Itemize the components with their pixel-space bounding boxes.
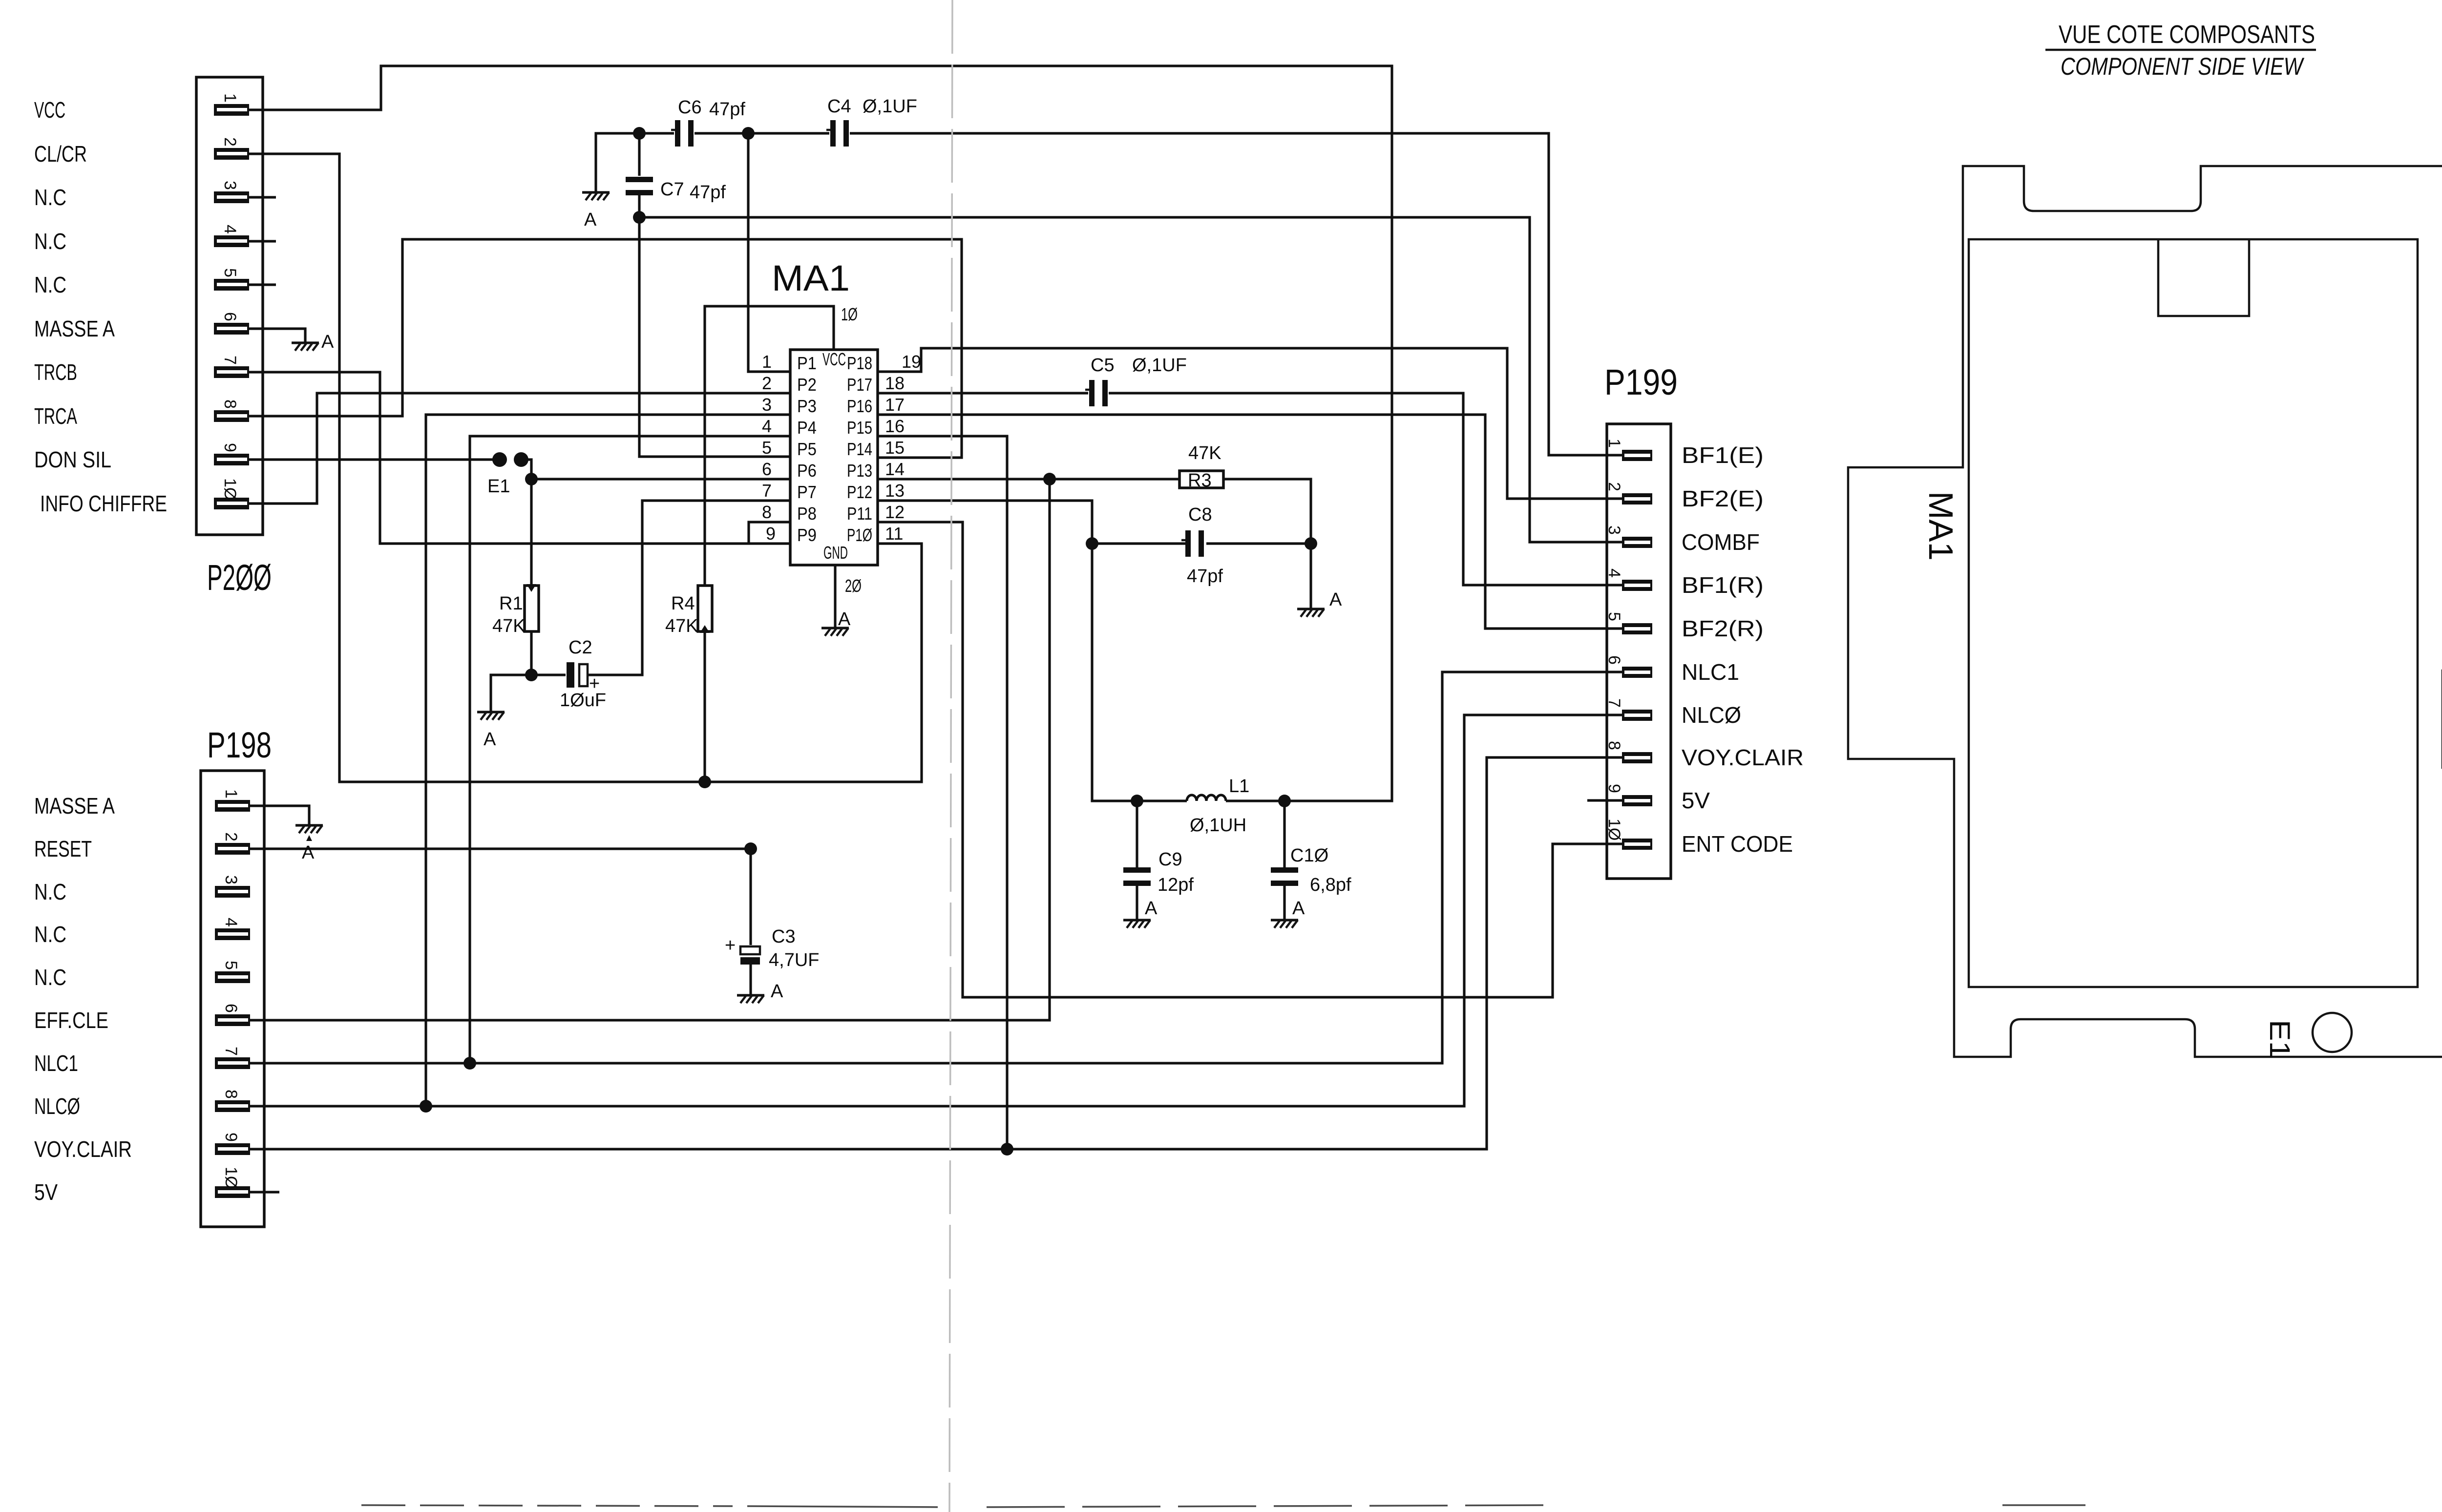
svg-text:A: A — [838, 609, 851, 630]
resistor R3 — [1179, 443, 1223, 491]
svg-text:14: 14 — [885, 459, 905, 479]
svg-text:5: 5 — [221, 268, 239, 277]
svg-text:N.C: N.C — [34, 922, 66, 947]
P198 pin bars 1-10 — [215, 800, 250, 1198]
svg-text:11: 11 — [885, 524, 903, 544]
node junction R1/C2/ground — [525, 669, 538, 681]
svg-text:5: 5 — [762, 438, 772, 458]
node junction C3 top — [744, 842, 757, 855]
node junction NLC1 branch — [463, 1057, 476, 1070]
svg-text:MASSE A: MASSE A — [34, 793, 115, 819]
svg-text:NLC1: NLC1 — [34, 1050, 78, 1076]
resistor R4 — [665, 586, 712, 636]
capacitor C8 — [1181, 504, 1223, 587]
svg-text:C5: C5 — [1091, 355, 1115, 376]
wire C6 C4 top line with ground stem — [596, 133, 1622, 455]
ground A at P198.1 — [295, 825, 323, 863]
wire INFO CHIFFRE P200.10 to MA1 P2 — [249, 393, 790, 504]
svg-text:A: A — [302, 842, 315, 863]
wire E1 to MA1 P6 row — [526, 460, 790, 479]
svg-text:N.C: N.C — [34, 229, 66, 254]
svg-text:N.C: N.C — [34, 272, 66, 297]
svg-text:E1: E1 — [487, 476, 510, 497]
P200 pin bars 1-10 — [214, 104, 249, 509]
svg-text:N.C: N.C — [34, 185, 66, 210]
inductor L1 coil — [1187, 795, 1226, 801]
svg-text:P5: P5 — [797, 439, 817, 459]
svg-text:P9: P9 — [797, 525, 817, 545]
svg-text:4: 4 — [222, 918, 240, 927]
node junction P15 on VOY.CLAIR line — [1001, 1143, 1013, 1155]
svg-text:9: 9 — [766, 524, 776, 544]
node junction R3/P13 — [1043, 473, 1056, 485]
svg-text:VOY.CLAIR: VOY.CLAIR — [1682, 745, 1804, 770]
svg-text:ENT CODE: ENT CODE — [1682, 831, 1793, 857]
svg-text:5V: 5V — [1682, 788, 1710, 813]
wire NLC1 branch up to MA1 P4 — [470, 436, 790, 1063]
svg-text:R4: R4 — [671, 593, 695, 614]
svg-text:VCC: VCC — [34, 97, 65, 123]
svg-text:P8: P8 — [797, 504, 817, 524]
svg-text:C4: C4 — [827, 96, 851, 117]
svg-text:BF2(E): BF2(E) — [1682, 486, 1764, 511]
svg-text:GND: GND — [823, 543, 848, 563]
ground A at C3 — [737, 981, 783, 1003]
component E1 hole on board — [2313, 1013, 2352, 1052]
svg-text:P14: P14 — [847, 439, 872, 459]
svg-text:47pf: 47pf — [690, 182, 726, 203]
svg-text:P198: P198 — [207, 725, 272, 765]
svg-text:P7: P7 — [797, 482, 817, 502]
capacitor C3 polarized — [725, 926, 819, 970]
svg-text:17: 17 — [885, 395, 905, 415]
svg-text:P12: P12 — [847, 482, 872, 502]
ground A at R1 — [477, 712, 505, 750]
svg-text:1: 1 — [762, 352, 772, 372]
svg-text:A: A — [321, 332, 334, 352]
svg-text:A: A — [771, 981, 783, 1002]
svg-text:RESET: RESET — [34, 836, 92, 861]
wire VOY.CLAIR P198.9 to P199.8 — [250, 757, 1622, 1149]
wire MA1 pin1 to C6/C4 junction — [748, 133, 790, 372]
svg-text:47K: 47K — [1188, 443, 1221, 463]
component MA1 outline on board — [1969, 239, 2418, 987]
svg-text:C2: C2 — [568, 637, 592, 658]
svg-text:MASSE A: MASSE A — [34, 316, 115, 341]
IC MA1 internal pin names left column — [797, 353, 817, 545]
connector P200 — [196, 77, 272, 598]
wire 5V stub P198.10 — [250, 1191, 279, 1193]
wire MASSE A P200.6 to ground — [249, 329, 305, 342]
wire C8 right to ground — [1309, 544, 1312, 608]
P200 signal labels — [34, 97, 167, 516]
svg-text:47pf: 47pf — [1187, 566, 1223, 587]
wire NLC0 branch up to MA1 P3 — [426, 415, 790, 1106]
ground A at C10 — [1271, 898, 1305, 928]
svg-text:47pf: 47pf — [709, 99, 745, 120]
P198 pin numbers — [222, 789, 240, 1189]
svg-text:7: 7 — [762, 481, 772, 501]
wire C10 stem — [1283, 801, 1285, 919]
svg-text:A: A — [1145, 898, 1158, 919]
svg-text:5: 5 — [1605, 612, 1623, 621]
svg-text:13: 13 — [885, 481, 905, 501]
svg-text:COMBF: COMBF — [1682, 529, 1760, 555]
node junction C8 left — [1086, 537, 1098, 550]
svg-text:C3: C3 — [772, 926, 796, 947]
svg-text:6: 6 — [221, 312, 239, 321]
svg-text:7: 7 — [221, 356, 239, 365]
svg-text:N.C: N.C — [34, 879, 66, 904]
svg-text:12: 12 — [885, 502, 905, 522]
capacitor C10 — [1271, 845, 1351, 895]
svg-text:47K: 47K — [492, 616, 526, 636]
capacitor C6 — [671, 97, 745, 147]
title VUE COTE COMPOSANTS — [2045, 21, 2316, 80]
svg-text:C7: C7 — [660, 179, 684, 200]
svg-text:P199: P199 — [1604, 362, 1678, 402]
connector P198 — [201, 725, 272, 1227]
IC MA1 pin numbers right side — [885, 352, 921, 544]
svg-text:MA1: MA1 — [1922, 491, 1960, 561]
svg-text:2: 2 — [1605, 482, 1623, 491]
svg-text:1Ø: 1Ø — [841, 304, 858, 324]
wire L1 line left junction to coil — [1137, 799, 1187, 802]
ground A at C8 — [1297, 589, 1342, 617]
svg-text:VCC: VCC — [822, 349, 846, 369]
svg-text:6,8pf: 6,8pf — [1310, 875, 1351, 895]
svg-text:BF1(R): BF1(R) — [1682, 572, 1764, 598]
wire MA1 GND pin 20 — [834, 565, 836, 627]
wire MA1 pin10 VCC to R4 top — [705, 306, 834, 586]
svg-text:8: 8 — [1605, 741, 1623, 750]
svg-text:P15: P15 — [847, 418, 872, 438]
jumper E1 pads — [487, 452, 528, 497]
svg-text:P13: P13 — [847, 461, 872, 481]
svg-text:1: 1 — [222, 789, 240, 798]
page fold line — [949, 0, 952, 1512]
svg-text:15: 15 — [885, 438, 905, 458]
wire C2 right lead up to MA1 P7 — [589, 501, 790, 675]
P199 pin numbers — [1605, 439, 1623, 840]
P199 pin bars 1-10 — [1622, 450, 1652, 850]
svg-text:NLCØ: NLCØ — [1682, 702, 1741, 728]
wire MA1 P13 row to R3 — [878, 478, 1179, 480]
svg-text:8: 8 — [222, 1090, 240, 1099]
svg-text:Ø,1UF: Ø,1UF — [863, 96, 917, 117]
svg-text:12pf: 12pf — [1158, 875, 1194, 895]
svg-text:C8: C8 — [1188, 504, 1212, 525]
scan edge marks bottom — [361, 1502, 2442, 1507]
svg-text:R1: R1 — [499, 593, 523, 614]
svg-text:C9: C9 — [1158, 849, 1182, 870]
node junction C7 top on C6/C4 line — [633, 127, 646, 140]
svg-text:6: 6 — [762, 459, 772, 479]
svg-text:NLC1: NLC1 — [1682, 659, 1739, 685]
svg-text:A: A — [484, 729, 496, 750]
svg-text:16: 16 — [885, 416, 905, 436]
svg-text:C1Ø: C1Ø — [1290, 845, 1328, 866]
svg-text:C6: C6 — [678, 97, 702, 118]
svg-text:1Ø: 1Ø — [1605, 819, 1623, 840]
P200 pin numbers — [221, 93, 239, 500]
node junction E1/R1 on P6 row — [525, 473, 538, 485]
wire EFF.CLE P198.6 up to P13 node — [250, 479, 1050, 1020]
svg-text:1: 1 — [1605, 439, 1623, 448]
svg-text:P1: P1 — [797, 353, 817, 373]
wire R4 bottom to CL/CR line — [703, 631, 706, 782]
wire R1 bottom to C2 junction — [530, 631, 532, 675]
svg-text:6: 6 — [1605, 655, 1623, 665]
wire MASSE A P198.1 to ground — [250, 806, 309, 824]
svg-text:2: 2 — [222, 832, 240, 841]
svg-text:P16: P16 — [847, 396, 872, 416]
wire TRCB branch to MA1 P8 — [749, 522, 790, 544]
svg-text:7: 7 — [222, 1047, 240, 1056]
wire C9 stem — [1136, 801, 1138, 919]
svg-text:Ø,1UH: Ø,1UH — [1190, 815, 1246, 836]
wire MA1 P18 row to P199.2 — [878, 348, 1622, 499]
svg-text:4: 4 — [1605, 568, 1623, 578]
svg-text:P2: P2 — [797, 375, 817, 395]
wire C7 stem and COMBF line to P199.3 — [639, 133, 1622, 542]
node junction R4 bottom — [698, 776, 711, 788]
wire NLC0 P198.8 to P199.7 — [250, 715, 1622, 1106]
ground A at C6 left — [582, 192, 610, 230]
capacitor C7 — [626, 177, 726, 203]
svg-text:9: 9 — [222, 1133, 240, 1142]
capacitor C4 — [826, 96, 917, 147]
svg-text:P6: P6 — [797, 461, 817, 481]
ground A at C9 — [1123, 898, 1158, 928]
svg-text:4: 4 — [221, 225, 239, 234]
wire VCC net P200.1 to L1 right — [249, 66, 1392, 801]
wire MA1 P16 row to P199.5 — [878, 415, 1622, 629]
wire C8 left down to L1 line — [1092, 544, 1137, 801]
svg-text:3: 3 — [762, 395, 772, 415]
wire TRCA net P200.8 to MA1 P14 — [249, 239, 962, 458]
wire MA1 P15 row down to VOY.CLAIR line — [878, 436, 1007, 1149]
svg-text:3: 3 — [222, 875, 240, 884]
ground A at MA1 GND — [821, 609, 851, 636]
svg-text:18: 18 — [885, 373, 905, 393]
svg-text:N.C: N.C — [34, 965, 66, 990]
svg-text:1ØuF: 1ØuF — [560, 690, 606, 711]
svg-text:P3: P3 — [797, 396, 817, 416]
node junction MA1 pin1 riser on C6/C4 line — [742, 127, 755, 140]
svg-text:P18: P18 — [847, 353, 872, 373]
resistor R1 — [492, 584, 539, 636]
wire 5V stub P199.9 — [1587, 799, 1622, 801]
svg-text:TRCB: TRCB — [34, 359, 77, 385]
wire C2 left lead — [531, 673, 566, 676]
wire C3 stem — [749, 849, 752, 994]
svg-text:DON SIL: DON SIL — [34, 447, 111, 472]
svg-text:COMPONENT SIDE VIEW: COMPONENT SIDE VIEW — [2061, 53, 2305, 80]
svg-text:TRCA: TRCA — [34, 403, 77, 429]
svg-text:A: A — [1292, 898, 1305, 919]
svg-text:P17: P17 — [847, 375, 872, 395]
svg-text:Ø,1UF: Ø,1UF — [1132, 355, 1187, 376]
wire DON SIL P200.9 to E1 — [249, 458, 493, 461]
capacitor C5 — [1085, 355, 1187, 406]
svg-text:A: A — [1329, 589, 1342, 610]
svg-text:3: 3 — [1605, 525, 1623, 535]
wire RESET P198.2 to C3 — [250, 847, 751, 850]
svg-text:P11: P11 — [847, 504, 872, 524]
svg-text:MA1: MA1 — [772, 258, 850, 298]
svg-text:1Ø: 1Ø — [221, 478, 239, 500]
wire N.C stub P200.4 — [249, 240, 276, 242]
svg-text:BF1(E): BF1(E) — [1682, 442, 1764, 468]
node junction C10 on L1 line — [1278, 795, 1291, 807]
svg-text:47K: 47K — [665, 616, 698, 636]
IC MA1 internal pin names right column — [847, 353, 872, 545]
svg-text:A: A — [584, 210, 597, 230]
capacitor C9 — [1123, 849, 1194, 895]
svg-text:2: 2 — [762, 373, 772, 393]
svg-text:P1Ø: P1Ø — [847, 525, 872, 545]
inductor L1 labels — [1190, 776, 1249, 836]
capacitor C2 polarized — [560, 637, 606, 711]
wire MA1 P12 row down to C8 left — [878, 501, 1092, 544]
P199 signal labels — [1682, 442, 1804, 857]
middle PCB board outline component side — [1848, 166, 2442, 1057]
svg-text:19: 19 — [902, 352, 921, 372]
svg-text:2: 2 — [221, 137, 239, 147]
svg-text:P4: P4 — [797, 418, 817, 438]
IC MA1 box — [772, 258, 878, 565]
wire R1 top from E1 node — [530, 479, 532, 584]
MA1 connector window notch — [2158, 239, 2249, 316]
svg-text:1: 1 — [221, 93, 239, 103]
svg-text:EFF.CLE: EFF.CLE — [34, 1008, 108, 1033]
wire MA1 P17 row through C5 to P199.4 — [878, 393, 1622, 585]
P198 signal labels — [34, 793, 132, 1205]
svg-text:P2ØØ: P2ØØ — [207, 557, 272, 598]
svg-text:5: 5 — [222, 961, 240, 970]
wire N.C stub P200.5 — [249, 283, 276, 286]
svg-text:5V: 5V — [34, 1179, 58, 1205]
wire R3 right lead down to C8 right — [1223, 479, 1311, 544]
svg-text:2Ø: 2Ø — [845, 576, 862, 596]
svg-text:E1: E1 — [2264, 1020, 2295, 1059]
svg-text:3: 3 — [221, 181, 239, 190]
node junction C8 right — [1305, 537, 1317, 550]
svg-text:BF2(R): BF2(R) — [1682, 616, 1764, 641]
svg-text:+: + — [725, 935, 736, 956]
wire TRCB net P200.7 to MA1 P9 — [249, 372, 790, 544]
node junction C7 bottom — [633, 211, 646, 224]
wire junction to R1 ground — [491, 675, 531, 711]
svg-text:9: 9 — [221, 443, 239, 452]
wire MA1 P11 row to ENT CODE line to P199.10 — [878, 522, 1622, 997]
connector P199 — [1604, 362, 1678, 879]
svg-text:8: 8 — [762, 502, 772, 522]
node junction NLC0 branch — [420, 1100, 432, 1113]
svg-text:4,7UF: 4,7UF — [769, 950, 819, 970]
wire N.C stub P200.3 — [249, 196, 276, 198]
IC MA1 pin numbers left side — [762, 352, 776, 544]
node junction C9 on L1 line — [1131, 795, 1143, 807]
svg-text:VUE COTE COMPOSANTS: VUE COTE COMPOSANTS — [2059, 21, 2315, 49]
wire C7 node down to MA1 P5 — [639, 217, 790, 457]
svg-text:CL/CR: CL/CR — [34, 141, 87, 167]
svg-text:6: 6 — [222, 1004, 240, 1013]
svg-text:VOY.CLAIR: VOY.CLAIR — [34, 1136, 132, 1162]
svg-text:NLCØ: NLCØ — [34, 1093, 80, 1119]
svg-text:9: 9 — [1605, 784, 1623, 793]
svg-text:R3: R3 — [1188, 470, 1212, 491]
svg-text:7: 7 — [1605, 698, 1623, 708]
svg-text:4: 4 — [762, 416, 772, 436]
svg-text:8: 8 — [221, 399, 239, 409]
wire CL/CR net P200.2 to MA1 P10 — [249, 154, 922, 782]
svg-text:L1: L1 — [1229, 776, 1249, 797]
ground A at P200.6 — [292, 332, 334, 352]
wire L1 coil to right junction — [1226, 799, 1284, 802]
svg-text:INFO CHIFFRE: INFO CHIFFRE — [40, 491, 167, 516]
wire C8 row — [1092, 542, 1311, 545]
svg-text:1Ø: 1Ø — [222, 1167, 240, 1189]
wire NLC1 P198.7 to P199.6 — [250, 672, 1622, 1063]
